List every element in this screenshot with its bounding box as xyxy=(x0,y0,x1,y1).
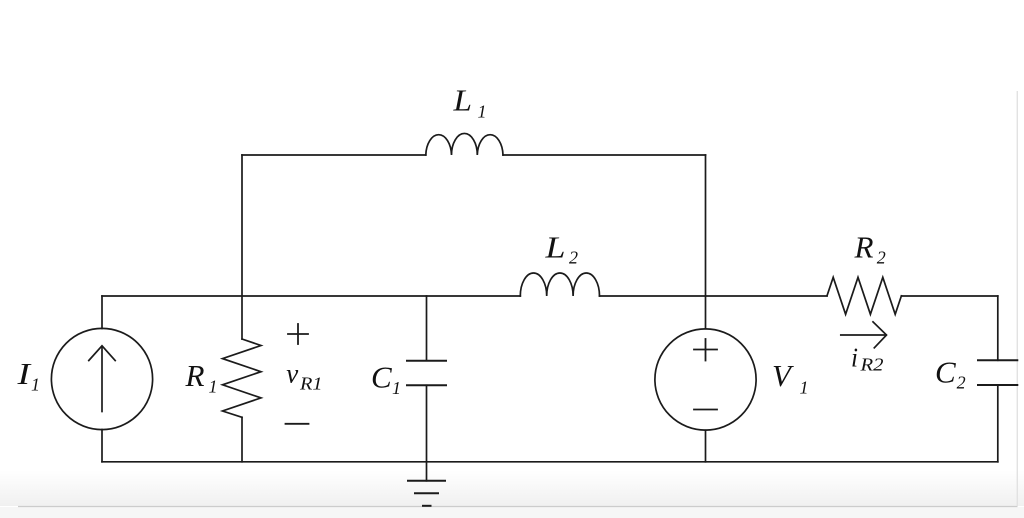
resistor R2 xyxy=(827,277,901,314)
svg-text:C: C xyxy=(935,355,956,390)
ground xyxy=(408,481,445,506)
wire V1 bottom stub xyxy=(705,430,707,462)
svg-text:R2: R2 xyxy=(859,355,883,375)
wire above C1 xyxy=(426,296,428,360)
svg-text:L: L xyxy=(544,229,565,264)
label L1 xyxy=(452,83,486,122)
wire middle left xyxy=(102,295,520,297)
label C2 xyxy=(935,355,966,393)
minus sign vR1 xyxy=(286,423,309,425)
svg-text:2: 2 xyxy=(877,248,886,268)
svg-text:I: I xyxy=(16,356,32,391)
svg-text:L: L xyxy=(452,83,472,118)
svg-text:1: 1 xyxy=(209,377,218,397)
label C1 xyxy=(371,359,401,398)
wire middle right of R2 xyxy=(901,295,997,297)
resistor R1 xyxy=(223,339,262,417)
svg-text:1: 1 xyxy=(478,102,487,122)
inductor L1 xyxy=(426,133,503,155)
svg-text:C: C xyxy=(371,359,392,394)
svg-text:2: 2 xyxy=(569,247,578,267)
svg-text:2: 2 xyxy=(957,372,966,392)
current source I1 xyxy=(51,328,152,429)
voltage source V1 xyxy=(655,329,756,430)
svg-text:R1: R1 xyxy=(299,374,323,394)
wire top branch right of L1 xyxy=(503,154,706,156)
wire below R1 xyxy=(241,417,243,462)
wire below C2 xyxy=(997,385,999,462)
wire bottom rail xyxy=(102,461,998,463)
capacitor C2 xyxy=(978,360,1017,385)
svg-text:R: R xyxy=(853,229,873,264)
current arrow iR2 xyxy=(841,322,887,348)
svg-text:i: i xyxy=(851,343,858,373)
label I1 xyxy=(16,356,40,395)
wire above C2 xyxy=(997,296,999,360)
label V1 xyxy=(772,358,809,398)
svg-text:1: 1 xyxy=(800,378,809,398)
wire top branch left of L1 xyxy=(242,154,426,156)
wire below C1 xyxy=(426,385,428,481)
label iR2 xyxy=(851,343,884,375)
label vR1 xyxy=(286,358,322,393)
plus sign vR1 xyxy=(288,324,308,344)
wire I1 bottom stub xyxy=(101,430,103,462)
capacitor C1 xyxy=(407,361,446,386)
svg-text:1: 1 xyxy=(392,378,401,398)
svg-text:1: 1 xyxy=(31,375,40,395)
label L2 xyxy=(544,229,578,267)
inductor L2 xyxy=(520,273,599,296)
svg-text:V: V xyxy=(772,358,794,393)
wire I1 top stub xyxy=(101,296,103,329)
wire top-right vertical xyxy=(705,155,707,329)
label R1 xyxy=(184,358,217,397)
svg-text:R: R xyxy=(184,358,204,393)
label R2 xyxy=(853,229,885,267)
wire top-left vertical xyxy=(241,155,243,339)
wire middle right of L2 xyxy=(600,295,828,297)
svg-text:v: v xyxy=(286,358,298,388)
